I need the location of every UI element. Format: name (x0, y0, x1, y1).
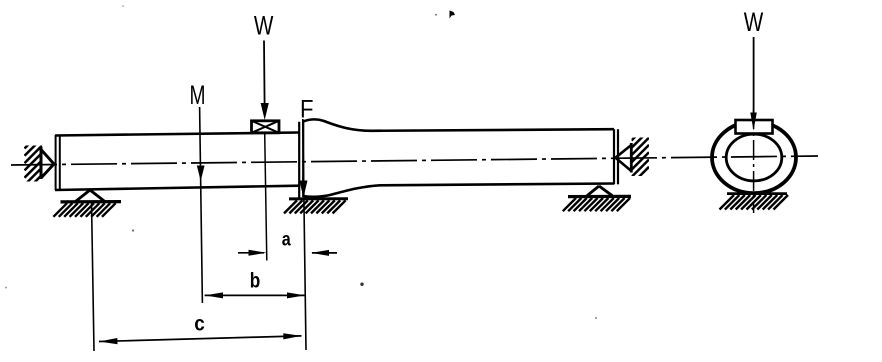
faint speck far left (5, 287, 7, 289)
dimension b line (205, 294, 306, 296)
dimension b arrowheads (205, 292, 223, 298)
W extension line below (265, 133, 267, 261)
svg-text:b: b (250, 270, 261, 293)
c left extension line (92, 201, 95, 351)
shaft left end cap (56, 135, 60, 190)
section ground hatch (720, 195, 789, 210)
dimension c line (99, 336, 302, 342)
shaft right end cap (614, 129, 618, 184)
force W arrow line (263, 41, 266, 106)
dimension a left segment (238, 252, 337, 254)
section ground line (727, 192, 787, 195)
force F arrowhead (299, 181, 307, 198)
faint speck top left (122, 5, 124, 7)
bottom-right support triangle (587, 186, 612, 196)
svg-text:W: W (744, 7, 764, 37)
bearing box (252, 121, 280, 133)
shaft section 1 (55, 133, 299, 191)
bottom-left ground line (61, 200, 122, 204)
shaft step shoulder (section1 right cap) (299, 122, 303, 198)
force W right arrowhead (750, 113, 757, 131)
keyway block (736, 120, 773, 134)
stray mark top (450, 11, 456, 19)
force W right arrow line (753, 37, 755, 114)
moment M line (200, 107, 203, 303)
bottom-left support triangle (76, 190, 105, 202)
cross-section view: outer circle (712, 122, 796, 193)
speck dot left (132, 229, 134, 231)
bottom-left ground hatch (53, 203, 115, 217)
ground under F hatch (289, 197, 348, 200)
left wall support triangle (41, 147, 54, 180)
shaft section 2 (tapered) (303, 119, 614, 196)
moment M arrowhead (197, 166, 205, 182)
centerline main axis (11, 156, 818, 165)
cross-section inner circle (726, 134, 782, 181)
dimension a arrowheads (249, 250, 267, 256)
svg-text:a: a (282, 230, 291, 251)
force W arrowhead (261, 103, 269, 120)
bottom-right ground line (568, 195, 631, 198)
force F line (303, 119, 306, 350)
bottom-right ground hatch (563, 198, 630, 211)
svg-text:c: c (194, 313, 205, 336)
right wall support triangle (616, 143, 632, 173)
faint speck bottom mid-right (595, 317, 597, 319)
bearing box cross (252, 121, 280, 133)
speck dot mid (360, 283, 363, 286)
section vertical centerline (753, 109, 755, 213)
svg-text:M: M (190, 80, 206, 110)
dimension c arrowheads (99, 338, 118, 344)
svg-text:W: W (254, 11, 274, 41)
